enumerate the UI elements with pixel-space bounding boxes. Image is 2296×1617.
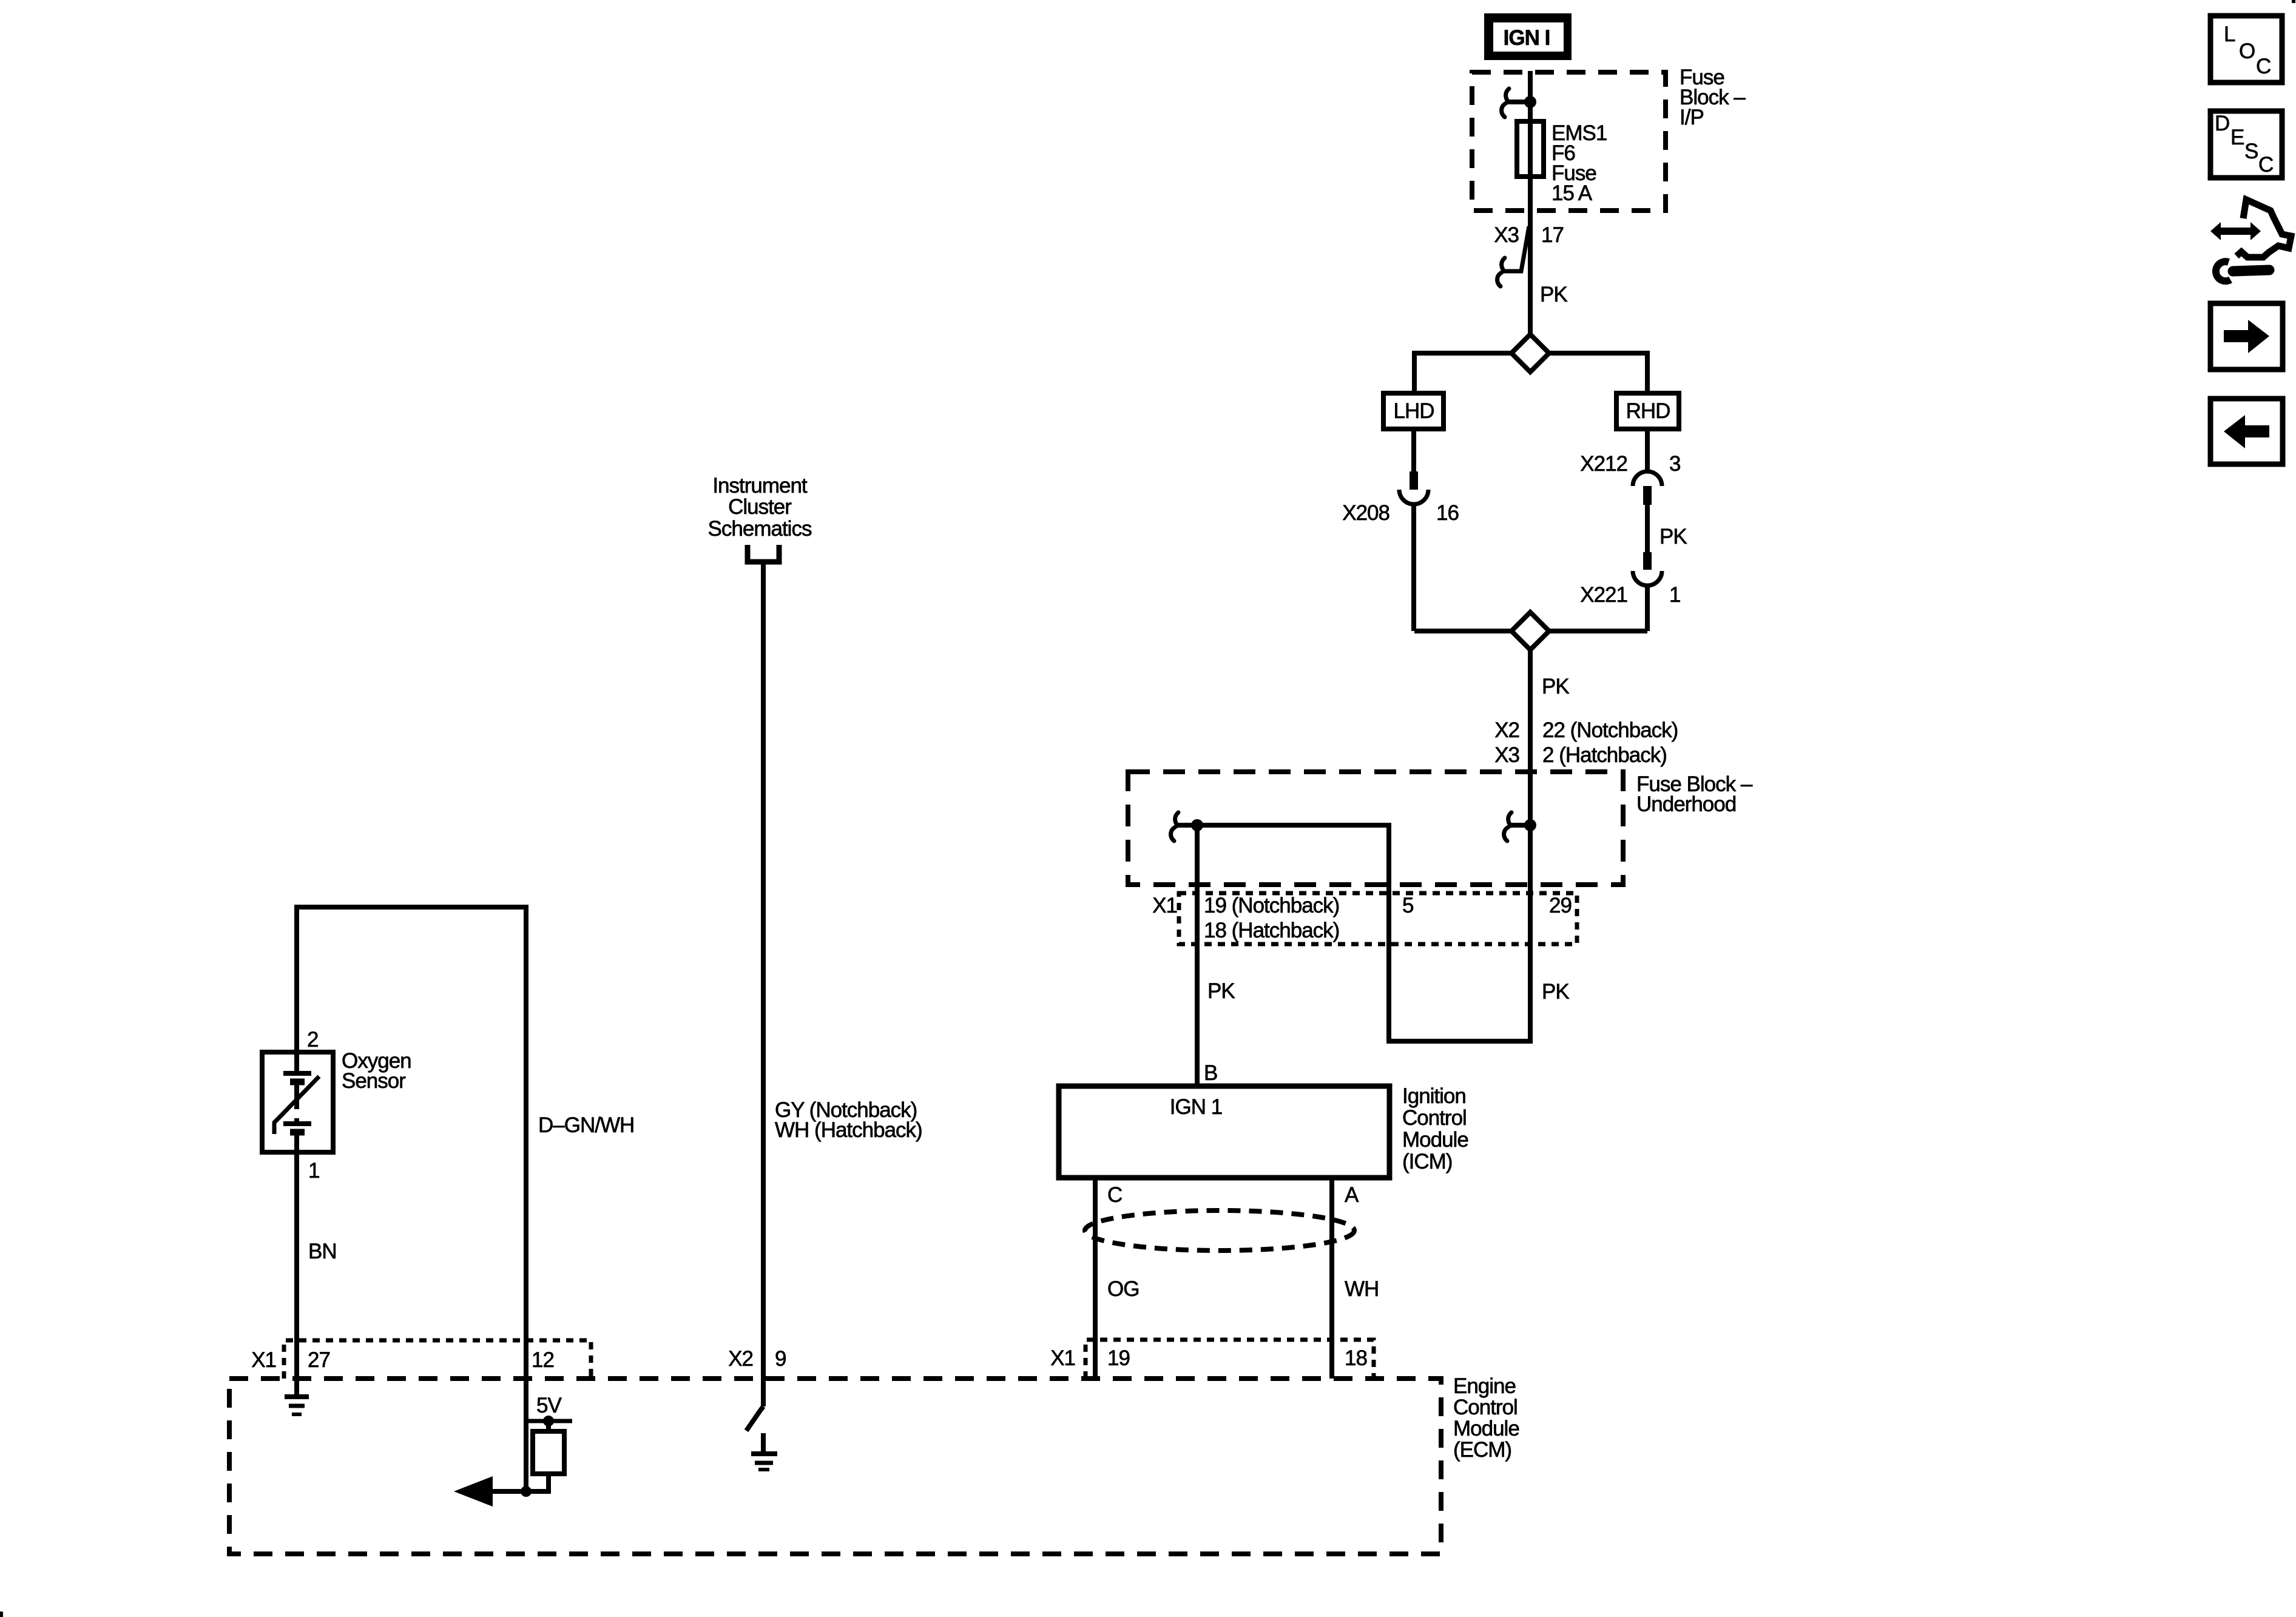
svg-text:22 (Notchback): 22 (Notchback) bbox=[1542, 718, 1678, 742]
ground at switch bbox=[751, 1433, 777, 1470]
svg-text:RHD: RHD bbox=[1626, 399, 1670, 423]
off-page connector bracket bbox=[748, 545, 779, 562]
signal arrow bbox=[454, 1476, 532, 1507]
ground at pin 27 bbox=[285, 1397, 309, 1414]
svg-text:IGN 1: IGN 1 bbox=[1170, 1095, 1222, 1119]
fuse block underhood dashed box bbox=[1128, 772, 1623, 885]
wire ICM pin A bbox=[1329, 1178, 1334, 1379]
wire labels OG WH bbox=[1107, 1277, 1379, 1301]
svg-text:Cluster: Cluster bbox=[728, 495, 792, 519]
oxygen sensor internal cells bbox=[274, 1052, 319, 1152]
oxygen sensor box bbox=[262, 1052, 333, 1152]
svg-text:PK: PK bbox=[1542, 675, 1569, 698]
bus clip left bbox=[1171, 812, 1203, 841]
wire oxygen sensor signal loop bbox=[297, 907, 526, 1491]
svg-text:X1: X1 bbox=[251, 1348, 276, 1372]
svg-text:Instrument: Instrument bbox=[712, 474, 808, 498]
wire cluster to ECM bbox=[761, 562, 766, 1406]
ICM box IGN 1 bbox=[1059, 1086, 1389, 1178]
svg-text:(ECM): (ECM) bbox=[1453, 1438, 1511, 1462]
resistor bbox=[526, 1421, 564, 1491]
wire labels GY WH bbox=[775, 1098, 922, 1142]
svg-text:5: 5 bbox=[1402, 894, 1413, 917]
wire BN to ground bbox=[294, 1152, 299, 1395]
pin labels X1 27 12 bbox=[251, 1348, 554, 1372]
connector pin box X1 19 18 bbox=[1086, 1340, 1374, 1379]
svg-text:D: D bbox=[2215, 112, 2229, 135]
label EMS1 F6 Fuse 15 A bbox=[1551, 121, 1607, 205]
svg-text:C: C bbox=[2256, 55, 2271, 78]
fuse-block bus clip bbox=[1502, 89, 1536, 117]
svg-text:Control: Control bbox=[1402, 1106, 1467, 1130]
svg-text:PK: PK bbox=[1542, 980, 1569, 1004]
icon DESC bbox=[2210, 111, 2282, 178]
label Fuse Block - Underhood bbox=[1636, 772, 1753, 816]
wire IGN I feed into fuse block bbox=[1528, 71, 1533, 121]
inline connector X212 pin 3 bbox=[1633, 471, 1662, 505]
svg-text:O: O bbox=[2239, 39, 2255, 63]
svg-text:Sensor: Sensor bbox=[342, 1069, 406, 1093]
wire PK between connectors bbox=[1645, 505, 1650, 552]
icon arrow right bbox=[2210, 303, 2283, 370]
svg-text:X2: X2 bbox=[1494, 718, 1519, 742]
svg-text:12: 12 bbox=[532, 1348, 554, 1372]
svg-text:27: 27 bbox=[308, 1348, 330, 1372]
svg-text:LHD: LHD bbox=[1393, 399, 1434, 423]
svg-text:X212: X212 bbox=[1580, 452, 1627, 476]
inline connector X208 pin 16 bbox=[1399, 471, 1428, 504]
svg-text:X221: X221 bbox=[1580, 583, 1627, 607]
svg-text:Module: Module bbox=[1402, 1128, 1468, 1152]
svg-text:15 A: 15 A bbox=[1551, 181, 1593, 205]
splice diamond bottom bbox=[1511, 612, 1549, 650]
harness ellipse bbox=[1085, 1210, 1354, 1251]
svg-text:18: 18 bbox=[1345, 1346, 1367, 1370]
svg-text:Underhood: Underhood bbox=[1636, 792, 1736, 816]
bus clip right bbox=[1504, 812, 1536, 841]
connector X3-17 clip bbox=[1497, 226, 1529, 286]
svg-text:17: 17 bbox=[1541, 223, 1564, 247]
splice diamond top bbox=[1511, 334, 1549, 372]
wire top bus bbox=[1414, 353, 1511, 393]
svg-text:Module: Module bbox=[1453, 1417, 1519, 1440]
pin labels C A bbox=[1107, 1183, 1359, 1207]
icon arrow left bbox=[2210, 399, 2283, 464]
svg-text:19: 19 bbox=[1107, 1346, 1130, 1370]
svg-text:(ICM): (ICM) bbox=[1402, 1150, 1452, 1173]
svg-text:D–GN/WH: D–GN/WH bbox=[538, 1113, 634, 1137]
svg-text:B: B bbox=[1204, 1061, 1217, 1085]
wire bottom bus bbox=[1414, 629, 1511, 633]
svg-text:1: 1 bbox=[1669, 583, 1680, 607]
svg-text:X2: X2 bbox=[728, 1347, 753, 1371]
wire splice to underhood fuse block bbox=[1528, 650, 1533, 825]
wire LHD to X208 bbox=[1411, 429, 1416, 473]
icon LOC bbox=[2210, 16, 2282, 83]
switch at pin 9 bbox=[746, 1406, 763, 1431]
connector X2/X3 pin labels bbox=[1494, 718, 1678, 767]
label Engine Control Module (ECM) bbox=[1453, 1374, 1519, 1462]
ECM dashed box bbox=[229, 1379, 1441, 1554]
page corner mark top-right bbox=[2292, 0, 2295, 3]
wire fuse to splice bbox=[1528, 177, 1533, 334]
svg-text:X208: X208 bbox=[1342, 501, 1389, 525]
wire internal bus bbox=[1197, 825, 1530, 1041]
connector pin box X1 27/12 bbox=[284, 1340, 591, 1379]
wire pin B feed bbox=[1195, 825, 1200, 1086]
svg-text:X1: X1 bbox=[1152, 894, 1177, 917]
labels X208 16 bbox=[1342, 501, 1459, 525]
fuse block I/P dashed box bbox=[1472, 72, 1666, 211]
svg-text:WH: WH bbox=[1345, 1277, 1379, 1301]
svg-text:Ignition: Ignition bbox=[1402, 1084, 1466, 1108]
svg-text:L: L bbox=[2224, 22, 2235, 46]
svg-text:16: 16 bbox=[1436, 501, 1459, 525]
labels X212 3 bbox=[1580, 452, 1680, 476]
svg-text:19 (Notchback): 19 (Notchback) bbox=[1204, 894, 1339, 917]
svg-text:PK: PK bbox=[1540, 283, 1567, 306]
wire ICM pin C bbox=[1093, 1178, 1098, 1379]
svg-text:C: C bbox=[1107, 1183, 1122, 1207]
svg-text:2: 2 bbox=[307, 1028, 318, 1052]
svg-text:3: 3 bbox=[1669, 452, 1680, 476]
svg-text:I/P: I/P bbox=[1680, 106, 1704, 129]
page corner mark bottom-left bbox=[0, 1612, 3, 1617]
pin labels X2 9 bbox=[728, 1347, 786, 1371]
pin labels X1 19 18 bbox=[1050, 1346, 1367, 1370]
svg-text:WH (Hatchback): WH (Hatchback) bbox=[775, 1118, 922, 1142]
svg-text:X1: X1 bbox=[1050, 1346, 1075, 1370]
label Ignition Control Module (ICM) bbox=[1402, 1084, 1468, 1173]
option tag LHD bbox=[1383, 393, 1443, 429]
svg-text:9: 9 bbox=[775, 1347, 786, 1371]
option tag RHD bbox=[1616, 393, 1679, 429]
svg-text:PK: PK bbox=[1660, 525, 1687, 549]
label Instrument Cluster Schematics bbox=[708, 474, 812, 541]
svg-text:2 (Hatchback): 2 (Hatchback) bbox=[1542, 743, 1667, 767]
labels X221 1 bbox=[1580, 583, 1680, 607]
svg-text:5V: 5V bbox=[536, 1394, 562, 1417]
svg-text:A: A bbox=[1345, 1183, 1359, 1207]
svg-text:X3: X3 bbox=[1494, 223, 1519, 247]
wire X208 to splice bbox=[1411, 504, 1416, 631]
connector X3-17 labels bbox=[1494, 223, 1564, 247]
svg-text:Schematics: Schematics bbox=[708, 517, 812, 541]
power tag IGN I bbox=[1484, 13, 1572, 60]
label Oxygen Sensor bbox=[342, 1049, 411, 1093]
svg-text:PK: PK bbox=[1207, 979, 1235, 1003]
svg-text:Control: Control bbox=[1453, 1396, 1518, 1419]
wire RHD to X212 bbox=[1645, 429, 1650, 473]
icon harness repair bbox=[2210, 200, 2291, 281]
svg-text:E: E bbox=[2230, 126, 2244, 149]
svg-text:1: 1 bbox=[308, 1159, 319, 1183]
inline connector X221 pin 1 bbox=[1633, 552, 1662, 586]
label Fuse Block - I/P bbox=[1680, 66, 1746, 129]
svg-text:C: C bbox=[2258, 153, 2273, 177]
svg-text:BN: BN bbox=[308, 1240, 337, 1263]
svg-text:18 (Hatchback): 18 (Hatchback) bbox=[1204, 919, 1339, 942]
connector pin box X1 19/18 5 29 bbox=[1179, 893, 1577, 944]
svg-text:Engine: Engine bbox=[1453, 1374, 1516, 1398]
wire X221 to splice bbox=[1645, 586, 1650, 631]
svg-text:X3: X3 bbox=[1494, 743, 1519, 767]
fuse EMS1 F6 15A bbox=[1517, 121, 1544, 177]
5V supply bbox=[527, 1394, 572, 1426]
pin labels X1 19/18 5 29 bbox=[1152, 894, 1572, 942]
svg-text:IGN I: IGN I bbox=[1504, 26, 1550, 50]
svg-text:S: S bbox=[2244, 140, 2258, 163]
svg-text:OG: OG bbox=[1107, 1277, 1139, 1301]
svg-text:29: 29 bbox=[1549, 894, 1572, 917]
